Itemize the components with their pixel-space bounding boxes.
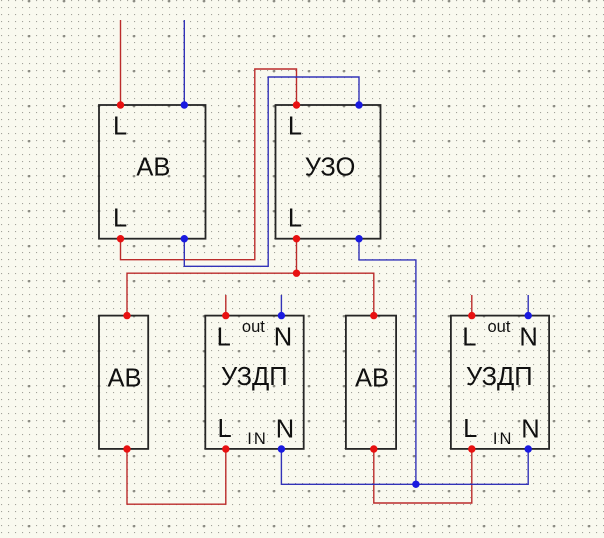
svg-text:IN: IN [247,430,267,448]
svg-text:N: N [274,323,292,351]
svg-text:N: N [519,323,537,351]
svg-text:out: out [488,318,511,336]
svg-text:УЗДП: УЗДП [466,363,533,391]
svg-text:N: N [276,415,294,443]
svg-text:out: out [242,318,265,336]
svg-text:L: L [113,113,127,141]
svg-text:УЗО: УЗО [305,154,356,182]
svg-text:L: L [288,205,302,233]
svg-text:АВ: АВ [107,364,141,392]
svg-text:L: L [462,323,476,351]
svg-text:IN: IN [493,430,514,448]
svg-text:L: L [218,415,232,443]
svg-text:L: L [217,323,231,351]
svg-text:L: L [463,415,477,443]
svg-text:N: N [521,415,539,443]
svg-text:L: L [288,113,302,141]
svg-text:АВ: АВ [355,364,389,392]
svg-text:L: L [113,205,127,233]
svg-text:УЗДП: УЗДП [221,363,288,391]
svg-text:АВ: АВ [136,154,170,182]
